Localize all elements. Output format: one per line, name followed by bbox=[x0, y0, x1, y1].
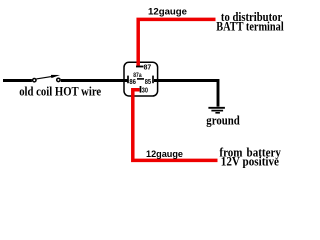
svg-text:BATT terminal: BATT terminal bbox=[216, 20, 284, 34]
svg-text:30: 30 bbox=[142, 86, 148, 95]
wire: bottom red 12gauge wire from battery to relay pin 30 bbox=[133, 90, 218, 161]
svg-text:12V positive: 12V positive bbox=[221, 155, 280, 169]
relay U1: pin 30 contact bar bbox=[140, 86, 142, 93]
switch S1: lever with arrowhead bbox=[36, 76, 53, 79]
svg-text:85: 85 bbox=[145, 77, 151, 86]
wire: black wire from switch to relay pin 86 bbox=[61, 79, 128, 82]
relay U1: pin 87a contact bar bbox=[137, 78, 144, 80]
svg-text:86: 86 bbox=[129, 77, 136, 86]
wire: left black wire from old coil to switch bbox=[3, 79, 32, 82]
svg-text:12gauge: 12gauge bbox=[146, 149, 183, 159]
ground symbol bbox=[208, 107, 225, 109]
svg-text:old coil HOT wire: old coil HOT wire bbox=[19, 85, 101, 99]
switch S1: right terminal circle bbox=[57, 78, 60, 81]
relay U1: pin 87 contact bar bbox=[136, 66, 144, 68]
relay U1: pin 85 contact bar bbox=[152, 76, 154, 84]
wire: right black wire from relay pin 85 to ground bbox=[154, 81, 218, 107]
switch S1: left terminal circle bbox=[33, 79, 36, 82]
wire: top red 12gauge wire from relay pin 87 to distributor bbox=[138, 19, 215, 65]
relay U1: body bbox=[124, 62, 158, 96]
svg-text:87: 87 bbox=[144, 63, 152, 72]
svg-text:ground: ground bbox=[206, 114, 240, 128]
relay U1: pin 86 contact bar bbox=[127, 76, 129, 84]
svg-text:12gauge: 12gauge bbox=[148, 6, 187, 16]
